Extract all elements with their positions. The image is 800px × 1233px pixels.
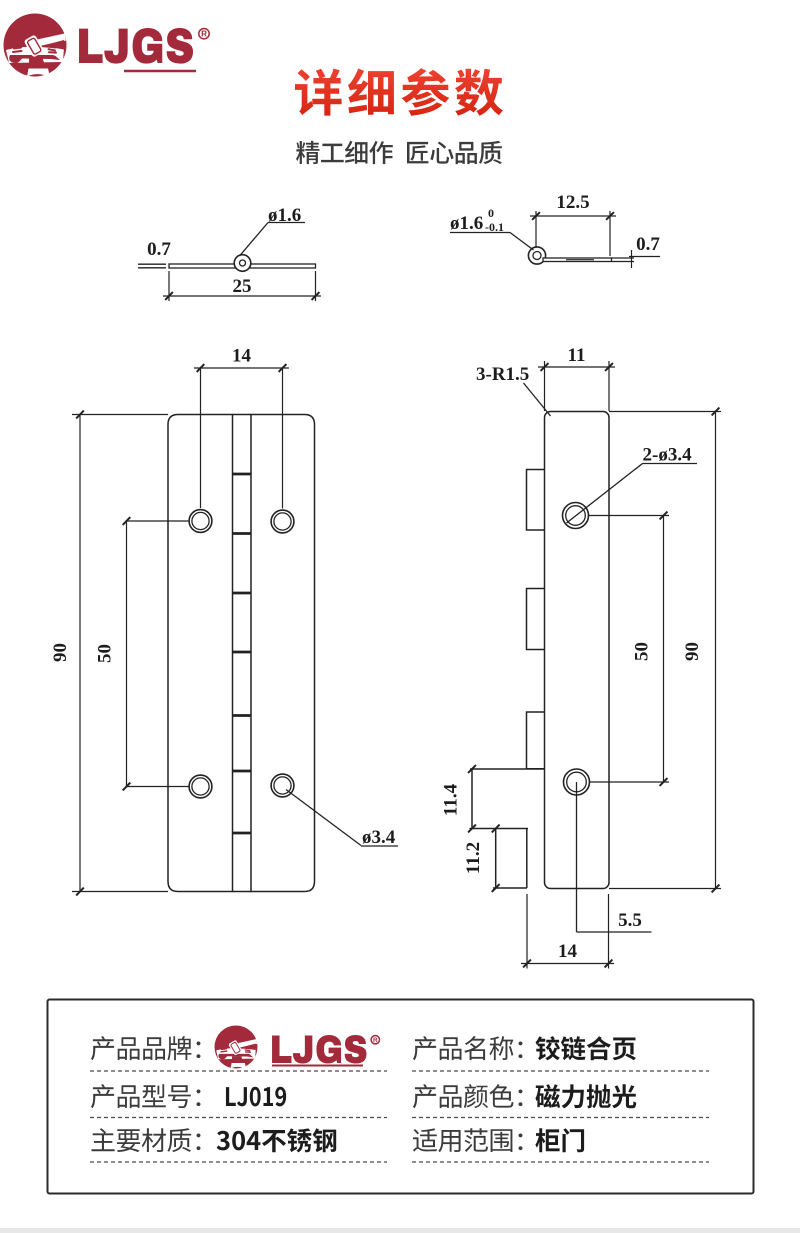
svg-text:12.5: 12.5 xyxy=(556,192,589,213)
svg-text:R: R xyxy=(373,1037,378,1044)
svg-text:5.5: 5.5 xyxy=(618,910,642,931)
svg-text:11.2: 11.2 xyxy=(463,842,484,874)
svg-text:90: 90 xyxy=(50,643,71,662)
svg-text:11: 11 xyxy=(568,345,586,366)
svg-text:3-R1.5: 3-R1.5 xyxy=(476,364,529,385)
svg-text:0: 0 xyxy=(488,206,494,220)
svg-text:50: 50 xyxy=(95,644,116,663)
svg-text:50: 50 xyxy=(632,642,653,661)
svg-text:ø1.6: ø1.6 xyxy=(268,205,301,226)
svg-text:0.7: 0.7 xyxy=(147,239,171,260)
svg-text:2-ø3.4: 2-ø3.4 xyxy=(643,445,693,466)
svg-text:0.7: 0.7 xyxy=(636,234,660,255)
svg-text:14: 14 xyxy=(558,941,578,962)
svg-text:90: 90 xyxy=(682,642,703,661)
svg-text:ø3.4: ø3.4 xyxy=(362,827,396,848)
svg-text:R: R xyxy=(201,30,207,39)
svg-text:14: 14 xyxy=(232,346,252,367)
svg-text:25: 25 xyxy=(233,276,252,297)
svg-text:11.4: 11.4 xyxy=(441,783,462,816)
svg-text:ø1.6: ø1.6 xyxy=(450,213,483,234)
